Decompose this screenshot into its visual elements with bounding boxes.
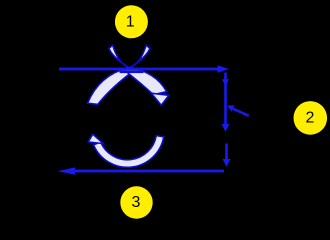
callout 2 (right) <box>294 101 328 135</box>
field swoosh A (from top-right tail, across wire, down to left cut end) <box>88 45 150 104</box>
wire right upper (current arrow, pointing down) <box>222 73 230 132</box>
svg-text:2: 2 <box>305 110 314 127</box>
wire top (current arrow, pointing right) <box>59 65 229 73</box>
wire right lower (current arrow, pointing down) <box>223 144 231 167</box>
wire (thickened junction under crossover) <box>120 71 144 74</box>
callout 3 (bottom) <box>120 186 152 218</box>
switch motion arrow (diagonal, pointing up-left) <box>227 105 249 116</box>
callout 1 (top) <box>115 5 148 38</box>
field swoosh B (from top-left tail, across wire, to down-right arrowhead) <box>109 45 169 105</box>
svg-text:3: 3 <box>132 194 141 211</box>
field loop lower arc (white curved arrow, head up-left) <box>88 134 164 167</box>
wire bottom (current arrow, pointing left) <box>58 167 225 174</box>
svg-text:1: 1 <box>126 14 135 31</box>
